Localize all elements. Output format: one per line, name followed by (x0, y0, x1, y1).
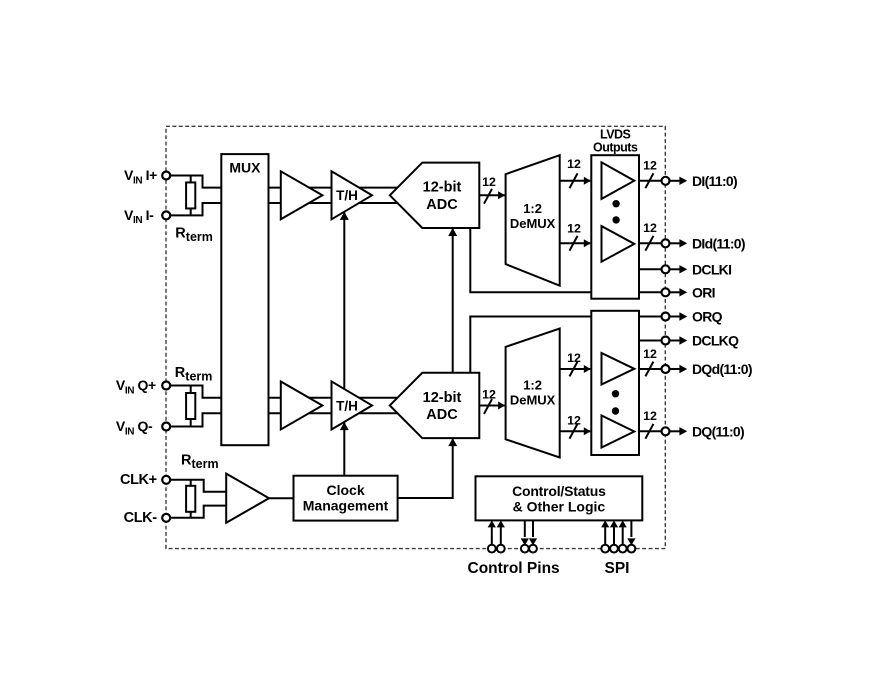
wire clock mgmt to ADCs (398, 228, 453, 498)
svg-text:ORI: ORI (692, 284, 715, 300)
wire clock to T/H I and T/H Q (343, 212, 345, 476)
svg-text:Clock: Clock (326, 482, 364, 498)
wire VIN I- to MUX (166, 203, 221, 215)
SPI pin terminals (601, 545, 609, 553)
Clock Management box (294, 476, 398, 521)
Control/Status & Other Logic box (476, 476, 643, 520)
LVDS buffer Q lower (602, 416, 635, 448)
control pins (inputs, up arrows) (491, 527, 493, 545)
svg-text:CLK+: CLK+ (120, 472, 157, 488)
dots Q (612, 390, 619, 397)
svg-text:12: 12 (482, 387, 496, 401)
bus DeMUX to LVDS Q lower (12) (560, 430, 591, 432)
svg-text:1:2: 1:2 (523, 201, 542, 216)
dots I (612, 200, 619, 207)
LVDS buffer Q upper (602, 353, 635, 385)
pin DCLKI (639, 268, 662, 270)
svg-text:12-bit: 12-bit (423, 180, 462, 196)
svg-text:CLK-: CLK- (124, 510, 158, 526)
wire clock buffer to Clock Management (269, 497, 294, 499)
svg-text:DQd(11:0): DQd(11:0) (692, 361, 752, 377)
bus DeMUX to LVDS Q upper (12) (560, 368, 591, 370)
svg-text:Control/Status: Control/Status (512, 483, 606, 499)
svg-text:ADC: ADC (426, 407, 458, 423)
node CLK- (162, 514, 170, 522)
wire CLK+ to clock buffer (166, 480, 226, 492)
T/H I (332, 171, 373, 219)
node VIN Q+ (162, 382, 170, 390)
clock buffer amp (CLK) (226, 474, 269, 523)
LVDS buffer I upper (602, 162, 635, 199)
DeMUX Q (1:2 DeMUX) (506, 329, 560, 458)
clock arrow into T/H I (340, 212, 349, 220)
resistor Rterm R2 (Q) (190, 386, 192, 427)
wire VIN Q- to MUX (166, 413, 221, 426)
T/H Q (332, 381, 373, 429)
pin DQ(11:0) (639, 430, 662, 432)
svg-text:T/H: T/H (336, 398, 358, 413)
chip boundary (dashed) (166, 126, 665, 548)
SPI pins (604, 527, 606, 545)
svg-text:12: 12 (482, 175, 496, 189)
DeMUX I (1:2 DeMUX) (506, 155, 560, 286)
MUX (221, 154, 268, 445)
node VIN I+ (162, 172, 170, 180)
wire VIN Q+ to MUX (166, 386, 221, 398)
svg-text:DCLKI: DCLKI (692, 261, 731, 277)
svg-text:Management: Management (303, 497, 389, 513)
wire VIN I+ to MUX (166, 176, 221, 188)
bus DeMUX to LVDS I lower (12) (560, 242, 591, 244)
clock arrow into T/H Q (340, 422, 349, 430)
bus ADC Q to DeMUX (12) (479, 404, 504, 406)
wire CLK- to clock buffer (166, 506, 226, 518)
wire MUX to ADC I (lower) (269, 202, 401, 204)
svg-text:DeMUX: DeMUX (510, 392, 556, 407)
LVDS Outputs block I (591, 155, 639, 299)
svg-text:DId(11:0): DId(11:0) (692, 235, 745, 251)
node VIN I- (162, 211, 170, 219)
wire MUX to ADC Q (upper) (269, 397, 401, 399)
pin ORQ (639, 316, 662, 318)
resistor Rterm R3 (CLK) (190, 480, 192, 518)
pin DId(11:0) (639, 242, 662, 244)
svg-text:SPI: SPI (605, 560, 630, 577)
wire ORQ from ADC Q (470, 317, 591, 439)
control pins (outputs, down arrows) (524, 520, 526, 537)
svg-text:12: 12 (643, 347, 657, 361)
pin DI(11:0) (639, 180, 662, 182)
node VIN Q- (162, 423, 170, 431)
LVDS buffer I lower (602, 226, 635, 262)
amplifier A2 (Q) (281, 381, 323, 429)
svg-text:DI(11:0): DI(11:0) (692, 173, 737, 189)
clock arrow into ADC Q (448, 438, 457, 446)
clock arrow into ADC I (448, 228, 457, 236)
wire ORI from ADC I (470, 228, 591, 292)
ADC Q (12-bit ADC) (390, 373, 480, 438)
svg-text:ADC: ADC (426, 197, 458, 213)
svg-text:DeMUX: DeMUX (510, 216, 556, 231)
svg-text:12: 12 (567, 351, 581, 365)
pin ORI (639, 291, 662, 293)
svg-text:12: 12 (567, 157, 581, 171)
resistor Rterm R1 (I) (190, 176, 192, 216)
wire MUX to ADC Q (lower) (269, 412, 401, 414)
wire MUX to ADC I (upper) (269, 187, 401, 189)
control pin terminals (488, 545, 496, 553)
svg-text:12: 12 (643, 409, 657, 423)
node CLK+ (162, 476, 170, 484)
bus ADC I to DeMUX (12) (479, 194, 504, 196)
svg-text:& Other Logic: & Other Logic (513, 498, 606, 514)
LVDS Outputs block Q (591, 311, 639, 455)
svg-text:DQ(11:0): DQ(11:0) (692, 423, 744, 439)
svg-text:12: 12 (643, 221, 657, 235)
svg-text:Outputs: Outputs (593, 141, 638, 155)
pin DCLKQ (639, 340, 662, 342)
svg-text:ORQ: ORQ (692, 309, 723, 325)
svg-text:12: 12 (567, 222, 581, 236)
svg-text:12: 12 (643, 159, 657, 173)
svg-text:T/H: T/H (336, 188, 358, 203)
bus DeMUX to LVDS I upper (12) (560, 180, 591, 182)
svg-text:MUX: MUX (229, 160, 261, 176)
ADC I (12-bit ADC) (390, 163, 480, 228)
svg-text:1:2: 1:2 (523, 377, 542, 392)
svg-text:Control Pins: Control Pins (468, 560, 560, 577)
svg-text:DCLKQ: DCLKQ (692, 333, 739, 349)
svg-text:12-bit: 12-bit (423, 390, 462, 406)
svg-text:LVDS: LVDS (600, 128, 631, 142)
pin DQd(11:0) (639, 368, 662, 370)
amplifier A1 (I) (281, 171, 323, 219)
svg-text:12: 12 (567, 414, 581, 428)
